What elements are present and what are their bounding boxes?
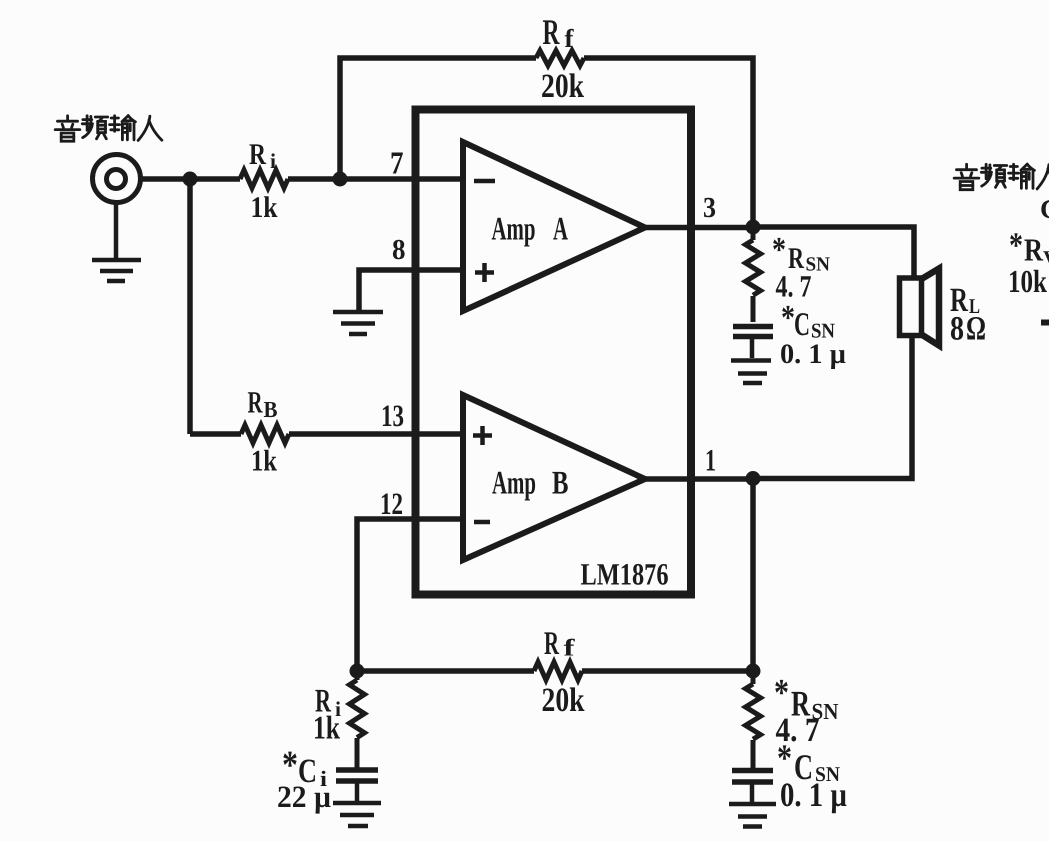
- svg-text:R: R: [248, 385, 263, 420]
- svg-text:i: i: [270, 149, 276, 173]
- svg-text:R: R: [249, 138, 266, 171]
- ground (bottom snubber): [729, 782, 776, 827]
- svg-text:8: 8: [392, 234, 406, 266]
- svg-text:f: f: [564, 636, 576, 662]
- svg-text:7: 7: [390, 145, 404, 181]
- node A junction dot: [183, 172, 198, 187]
- resistor Ri (bottom, 1k): [350, 671, 365, 768]
- wire: bottom feedback Rf run: [357, 668, 753, 674]
- ground (top snubber): [731, 337, 771, 384]
- svg-text:22 µ: 22 µ: [277, 779, 331, 814]
- svg-text:C: C: [1040, 194, 1049, 224]
- svg-text:Amp: Amp: [492, 466, 536, 502]
- svg-text:20k: 20k: [541, 68, 584, 105]
- node C junction dot (pin 3): [746, 220, 761, 235]
- capacitor Ci (22u): [336, 770, 378, 781]
- label 音频输入 (audio input, top-left): [55, 116, 162, 142]
- svg-text:10k: 10k: [1008, 263, 1047, 299]
- wire: jack to node A: [140, 176, 240, 182]
- node B junction dot: [333, 172, 348, 187]
- svg-text:B: B: [552, 466, 569, 502]
- svg-text:R: R: [544, 626, 560, 662]
- ground (below RCA jack): [92, 202, 141, 281]
- svg-text:*: *: [1009, 225, 1023, 265]
- node D junction dot: [350, 664, 365, 679]
- svg-text:*: *: [774, 672, 789, 714]
- svg-text:B: B: [264, 397, 278, 422]
- op-amp U1B Amp B triangle: [463, 395, 645, 560]
- svg-text:*: *: [777, 738, 792, 780]
- svg-text:Amp: Amp: [492, 212, 536, 248]
- connector J1 RCA jack outer ring: [93, 155, 141, 203]
- svg-text:*: *: [781, 298, 795, 337]
- capacitor CSN (top snubber, 0.1u): [733, 327, 773, 337]
- svg-text:1: 1: [705, 443, 716, 478]
- resistor RSN (bottom snubber, 4.7): [746, 671, 761, 769]
- op-amp U1B non-inverting input plus sign: [473, 426, 492, 445]
- op-amp U1A non-inverting input plus sign: [475, 263, 494, 282]
- svg-text:20k: 20k: [542, 682, 585, 719]
- svg-text:Ω: Ω: [966, 311, 986, 348]
- label 音频输入 (right edge fragment): [954, 164, 1049, 190]
- svg-text:13: 13: [381, 398, 404, 433]
- capacitor CSN (bottom snubber, 0.1u): [732, 771, 773, 783]
- op-amp IC U1 LM1876 package box: [416, 110, 692, 595]
- svg-text:1k: 1k: [251, 191, 278, 224]
- connector J1 RCA jack inner pin: [107, 170, 126, 189]
- wire: node A down to RB: [187, 179, 193, 434]
- svg-text:8: 8: [950, 311, 964, 348]
- wire: pin 8 to ground: [359, 270, 463, 310]
- svg-text:*: *: [772, 230, 786, 269]
- wire: feedback loop A (node B up, across top, down to pin 3 node): [340, 58, 753, 227]
- wire: node A to RB: [190, 431, 241, 437]
- svg-text:0. 1 µ: 0. 1 µ: [780, 339, 846, 370]
- node F junction dot: [746, 664, 761, 679]
- resistor Rf (top feedback, 20k): [536, 51, 584, 66]
- svg-text:C: C: [794, 307, 810, 343]
- svg-text:12: 12: [380, 486, 403, 521]
- speaker RL driver rectangle: [900, 278, 922, 336]
- node E junction dot (pin 1): [746, 471, 761, 486]
- wire: pin 1 output to speaker bottom: [645, 336, 912, 479]
- ground (pin 8): [333, 312, 383, 334]
- resistor Rf (bottom feedback, 20k): [534, 662, 582, 680]
- wire: node E down to bottom feedback: [750, 479, 756, 672]
- svg-text:f: f: [565, 24, 574, 53]
- svg-text:LM1876: LM1876: [581, 557, 669, 592]
- wire: pin 3 output to speaker top: [645, 227, 914, 278]
- ground (bottom left): [333, 781, 381, 826]
- fragment plus sign (right edge): [1041, 320, 1049, 326]
- wire: RB to pin 13: [289, 431, 463, 437]
- svg-text:3: 3: [703, 192, 716, 224]
- svg-text:A: A: [553, 212, 568, 248]
- wire: pin 12 to node D: [357, 519, 463, 671]
- op-amp U1B inverting input minus sign: [474, 520, 490, 525]
- wire: Ri to pin 7: [288, 176, 463, 182]
- speaker RL cone: [922, 269, 940, 346]
- svg-text:1k: 1k: [251, 445, 277, 478]
- resistor Ri (input, 1k): [240, 170, 288, 188]
- svg-text:0. 1 µ: 0. 1 µ: [780, 777, 847, 814]
- op-amp U1A inverting input minus sign: [474, 179, 495, 184]
- resistor RSN (top snubber, 4.7): [746, 227, 761, 322]
- svg-text:1k: 1k: [313, 711, 340, 747]
- svg-text:R: R: [543, 12, 561, 52]
- resistor RB (1k): [241, 425, 289, 443]
- op-amp U1A Amp A triangle: [463, 142, 645, 311]
